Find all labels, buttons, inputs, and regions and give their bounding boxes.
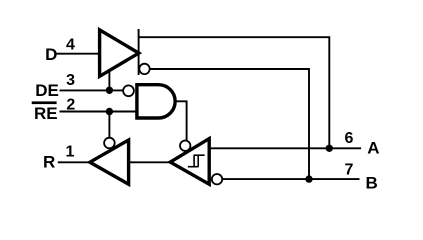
svg-text:DE: DE [35, 81, 59, 100]
svg-text:R: R [43, 153, 55, 172]
wire receiver internal [129, 161, 171, 163]
wire DE input [60, 89, 124, 91]
bubble receiver buffer enable [104, 138, 115, 149]
svg-text:D: D [45, 45, 57, 64]
junction A [326, 145, 333, 152]
svg-text:2: 2 [66, 97, 75, 114]
hysteresis symbol [188, 155, 205, 167]
driver buffer (triangle, D input) [100, 30, 139, 76]
bubble schmitt inverting B input [212, 174, 222, 184]
AND gate (enable logic) [137, 85, 175, 118]
wire A line pin 6 [209, 147, 361, 149]
svg-text:1: 1 [66, 144, 75, 161]
svg-text:6: 6 [345, 130, 354, 147]
svg-text:7: 7 [345, 162, 354, 179]
junction RE/receiver-enable [106, 108, 113, 115]
wire RE input [60, 111, 138, 113]
svg-text:A: A [367, 139, 379, 158]
svg-text:B: B [366, 173, 378, 192]
bubble driver inverting output [139, 64, 149, 74]
wire AND output to receiver enable bubble [175, 101, 186, 142]
wire receiver enable [108, 112, 110, 140]
wire driver noninverting output to A [139, 37, 330, 148]
junction DE/driver-enable [106, 87, 113, 94]
junction B [305, 175, 312, 182]
wire B line pin 7 [222, 178, 359, 180]
bubble AND gate DE input [123, 85, 134, 96]
bubble schmitt enable [180, 141, 190, 151]
wire driver inverting output to B [150, 69, 309, 179]
svg-text:3: 3 [66, 72, 75, 89]
wire D input [56, 53, 100, 55]
svg-text:RE: RE [34, 104, 58, 123]
wire driver output vertical [138, 29, 140, 75]
wire driver enable [108, 68, 110, 90]
receiver schmitt comparator (triangle) [170, 139, 209, 185]
svg-text:4: 4 [66, 36, 75, 53]
wire R output [58, 161, 90, 163]
receiver output buffer (triangle, R output) [90, 140, 129, 184]
